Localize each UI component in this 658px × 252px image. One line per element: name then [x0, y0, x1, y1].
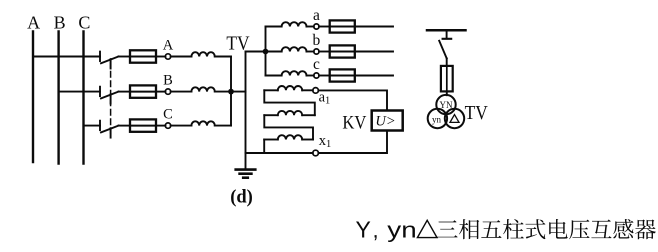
svg-text:A: A: [163, 38, 174, 54]
wire secondary feeder b: [355, 51, 393, 53]
busbar B: [57, 32, 59, 164]
terminal a1: [313, 88, 319, 94]
wire blade to fuse: [119, 91, 131, 93]
wire winding to star point: [215, 56, 231, 58]
svg-text:Y: Y: [356, 217, 371, 243]
svg-text:U>: U>: [375, 114, 395, 130]
fuse right TV: [441, 66, 453, 92]
terminal A: [165, 54, 170, 59]
disconnector QSB blade: [101, 92, 119, 99]
TV symbol bottom-right circle delta: [445, 109, 464, 128]
svg-text:A: A: [27, 12, 40, 32]
fuse FUa secondary: [330, 20, 355, 32]
aux winding 3: [264, 135, 313, 139]
fuse FUB primary: [130, 85, 156, 97]
junction primary neutral: [228, 89, 234, 95]
wire winding to star point: [215, 125, 231, 127]
wire bus to winding a: [266, 26, 282, 28]
wire bus A tap: [33, 56, 100, 58]
earth lead: [245, 52, 247, 169]
terminal a: [314, 24, 319, 29]
svg-text:,: ,: [373, 218, 379, 243]
wire primary neutral to earth lead: [231, 91, 246, 93]
wire secondary feeder c: [355, 75, 393, 77]
right busbar segment: [427, 29, 466, 32]
primary winding B: [191, 87, 214, 91]
wire w3 to x1 line: [263, 140, 265, 154]
wire link w2-w3: [264, 115, 313, 139]
disconnector QSC blade: [101, 126, 119, 133]
terminal b: [314, 49, 319, 54]
wire x1 line: [246, 152, 313, 154]
aux winding 1: [264, 86, 313, 90]
wire fuse to terminal: [156, 56, 165, 58]
switch stem: [446, 30, 448, 38]
wire secondary feeder a: [355, 26, 393, 28]
terminal B: [165, 89, 170, 94]
wire bus C tap: [84, 125, 101, 127]
relay U> box: [372, 111, 403, 131]
terminal C: [165, 123, 170, 128]
secondary winding a: [282, 22, 307, 26]
svg-text:B: B: [163, 73, 173, 89]
primary winding C: [191, 121, 214, 125]
primary star-point bus: [230, 57, 232, 126]
svg-text:a1: a1: [319, 90, 331, 107]
gang linkage dashed: [110, 62, 112, 133]
wire winding to terminal b: [307, 51, 314, 53]
caption Y, yn delta three-phase five-limb voltage transformer: [356, 217, 417, 243]
ground: [236, 170, 256, 178]
secondary star bus: [265, 27, 267, 76]
wire fuse to terminal: [156, 125, 165, 127]
svg-text:c: c: [313, 56, 320, 73]
wire terminal to fuse: [319, 75, 330, 77]
svg-text:KV: KV: [342, 112, 366, 133]
wire terminal to winding: [171, 91, 192, 93]
wire bus B tap: [59, 91, 100, 93]
wire terminal to fuse: [319, 51, 330, 53]
wire blade to fuse: [119, 125, 131, 127]
marking delta: [450, 115, 459, 123]
wire bus to winding b: [266, 51, 282, 53]
disconnector QSA contact tick: [99, 52, 101, 61]
wire blade to fuse: [446, 58, 448, 66]
disconnector QSC contact tick: [99, 121, 101, 130]
svg-text:B: B: [54, 12, 66, 32]
busbar C: [82, 32, 84, 164]
svg-text:x1: x1: [319, 133, 332, 150]
disconnector QSB contact tick: [99, 87, 101, 96]
svg-text:yn: yn: [432, 115, 442, 125]
caption CJK glyphs: [437, 219, 656, 239]
primary winding A: [191, 52, 214, 56]
TV symbol bottom-left circle yn: [428, 109, 447, 128]
wire link w1-w2: [264, 90, 315, 115]
wire terminal to winding: [171, 125, 192, 127]
fuse FUc secondary: [330, 69, 355, 81]
busbar A: [32, 32, 34, 163]
junction secondary b: [263, 49, 269, 55]
svg-text:C: C: [78, 12, 90, 32]
wire x1 to relay: [318, 131, 387, 154]
disconnector QSC gang tick: [110, 128, 112, 137]
svg-text:b: b: [313, 32, 321, 49]
disconnector QSB gang tick: [110, 94, 112, 103]
svg-text:yn: yn: [387, 218, 416, 243]
disconnector QSA blade: [101, 57, 119, 64]
secondary winding c: [282, 71, 307, 75]
fuse FUA primary: [130, 50, 156, 62]
terminal x1: [313, 150, 319, 156]
svg-text:(d): (d): [230, 188, 253, 208]
svg-text:TV: TV: [465, 103, 488, 124]
switch contact bar: [443, 38, 452, 40]
disconnector QSA gang tick: [110, 59, 112, 68]
wire winding to terminal c: [307, 75, 314, 77]
wire blade to fuse: [119, 56, 131, 58]
wire secondary b to earth lead: [246, 51, 282, 53]
TV symbol top circle YN: [436, 95, 455, 114]
secondary winding b: [282, 47, 307, 51]
svg-text:YN: YN: [440, 100, 453, 110]
wire fuse to terminal: [156, 91, 165, 93]
fuse FUC primary: [130, 119, 156, 131]
caption delta: [417, 220, 437, 237]
aux winding 2: [264, 111, 315, 115]
svg-text:a: a: [313, 7, 320, 24]
wire winding to terminal a: [307, 26, 314, 28]
wire terminal to winding: [171, 56, 192, 58]
wire terminal to fuse: [319, 26, 330, 28]
wire a1 to relay: [318, 90, 387, 110]
svg-text:C: C: [163, 107, 173, 123]
switch blade: [439, 41, 447, 59]
wire winding to star point: [215, 91, 231, 93]
wire bus to winding c: [266, 75, 282, 77]
wire fuse to TV: [446, 91, 448, 95]
terminal c: [314, 73, 319, 78]
fuse FUb secondary: [330, 45, 355, 57]
